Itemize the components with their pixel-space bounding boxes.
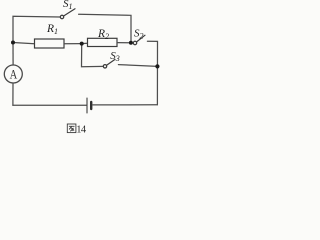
svg-text:14: 14 bbox=[76, 124, 87, 135]
svg-text:S1: S1 bbox=[63, 0, 73, 11]
battery bbox=[87, 98, 91, 113]
node D junction dot bbox=[155, 64, 159, 68]
node B junction dot bbox=[129, 41, 133, 45]
wire S2 to right edge and down to bottom-right corner bbox=[147, 41, 157, 105]
caption 图 glyph bbox=[67, 124, 76, 133]
wire S3 to node D on right edge bbox=[118, 65, 157, 67]
node A junction dot bbox=[11, 41, 15, 45]
node C junction dot bbox=[80, 42, 84, 46]
resistor R2 bbox=[88, 38, 118, 46]
wire node C down and right to S3 bbox=[82, 44, 104, 67]
resistor R1 bbox=[35, 39, 65, 48]
wire R1 to node C bbox=[64, 43, 82, 45]
wire battery to bottom-right corner bbox=[93, 104, 158, 106]
wire ammeter down to bottom wire bbox=[12, 83, 14, 105]
wire top-left from corner to S1 bbox=[13, 16, 60, 42]
ammeter A bbox=[4, 65, 22, 83]
switch S3 bbox=[103, 59, 115, 68]
wire left edge from node A to ammeter bbox=[12, 43, 14, 66]
wire bottom-left to battery bbox=[13, 104, 86, 106]
wire node A to R1 bbox=[13, 43, 35, 44]
svg-text:A: A bbox=[10, 66, 18, 81]
switch S2 bbox=[133, 35, 145, 45]
switch S1 bbox=[60, 9, 75, 19]
wire R2 to node B bbox=[117, 42, 131, 44]
wire top-right from S1 to down-corner joining node B bbox=[79, 14, 131, 41]
wire node C to R2 bbox=[82, 42, 88, 44]
